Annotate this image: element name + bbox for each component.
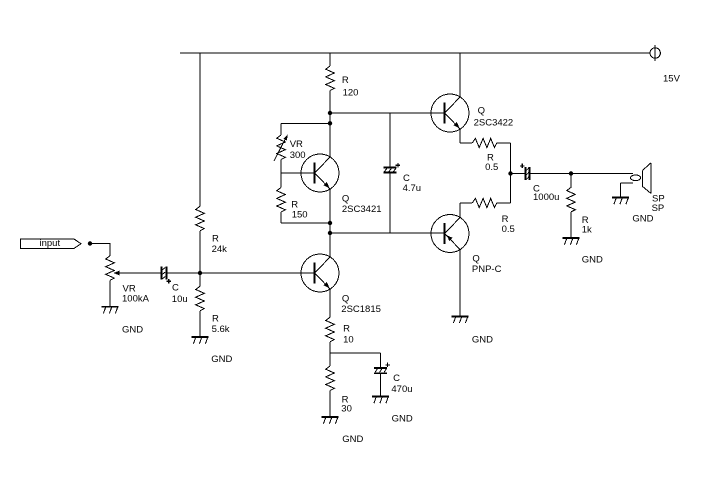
ground bbox=[451, 316, 468, 324]
potentiometer VR 100kA bbox=[106, 256, 120, 280]
resistor R 150 bbox=[277, 188, 286, 213]
svg-text:VR: VR bbox=[290, 139, 303, 150]
capacitor C 4.7u bbox=[383, 163, 400, 173]
node input label bbox=[21, 238, 82, 249]
label R 24k bbox=[212, 234, 228, 255]
label R 150 bbox=[291, 199, 307, 220]
label VR 100kA bbox=[122, 283, 150, 304]
speaker SP bbox=[631, 163, 652, 194]
svg-text:30: 30 bbox=[341, 404, 352, 415]
wire bbox=[460, 129, 473, 144]
label R 10 bbox=[343, 323, 354, 345]
svg-text:100kA: 100kA bbox=[122, 293, 150, 304]
trimmer VR 300 bbox=[274, 134, 288, 161]
label GND bbox=[342, 434, 363, 445]
svg-text:1000u: 1000u bbox=[533, 192, 559, 203]
ground bbox=[562, 237, 579, 245]
wire bbox=[330, 91, 331, 158]
wire bbox=[497, 143, 511, 174]
wire bbox=[531, 173, 571, 174]
wire bbox=[330, 342, 331, 366]
wire bbox=[497, 174, 511, 204]
wire bbox=[460, 203, 473, 218]
resistor R 30 bbox=[326, 366, 335, 391]
resistor R 5.6k bbox=[196, 286, 205, 311]
node input dot bbox=[88, 241, 92, 245]
svg-text:0.5: 0.5 bbox=[502, 224, 515, 235]
power terminal 15V bbox=[650, 45, 660, 61]
ground bbox=[191, 336, 208, 344]
label R 0.5 upper bbox=[485, 153, 498, 173]
svg-text:GND: GND bbox=[582, 254, 603, 265]
wire bbox=[330, 353, 381, 354]
transistor Q 2SC3422 bbox=[431, 94, 469, 132]
wire bbox=[200, 273, 201, 286]
resistor R 120 bbox=[326, 66, 335, 91]
node F dot bbox=[508, 171, 512, 175]
wire bbox=[281, 160, 282, 174]
transistor Q PNP-C bbox=[431, 215, 469, 253]
svg-text:10u: 10u bbox=[172, 294, 188, 305]
label GND bbox=[632, 214, 653, 225]
wire bbox=[330, 189, 331, 257]
wire bbox=[281, 212, 282, 223]
node C dot bbox=[328, 121, 332, 125]
wire bbox=[330, 391, 331, 417]
resistor R 0.5 upper bbox=[472, 138, 497, 147]
svg-text:GND: GND bbox=[472, 334, 493, 345]
label R 5.6k bbox=[212, 313, 230, 335]
capacitor C 10u bbox=[160, 266, 171, 283]
label C 4.7u bbox=[403, 173, 422, 194]
capacitor C 1000u bbox=[520, 164, 531, 181]
wire bbox=[281, 173, 314, 174]
label R 0.5 lower bbox=[502, 214, 515, 235]
label C 1000u bbox=[533, 184, 559, 204]
wire bbox=[281, 123, 330, 124]
label GND bbox=[582, 254, 603, 265]
wire bbox=[390, 173, 391, 233]
svg-text:0.5: 0.5 bbox=[485, 162, 498, 173]
wire bbox=[330, 53, 331, 66]
label R 30 bbox=[341, 395, 352, 415]
svg-text:R: R bbox=[342, 75, 349, 86]
transistor Q 2SC1815 bbox=[301, 254, 339, 292]
node A dot bbox=[198, 271, 202, 275]
wire bbox=[390, 113, 391, 167]
svg-text:GND: GND bbox=[392, 414, 413, 425]
wire bbox=[571, 212, 572, 237]
wire bbox=[281, 123, 282, 135]
svg-text:GND: GND bbox=[632, 214, 653, 225]
wire bbox=[380, 353, 381, 367]
wire bbox=[281, 223, 330, 224]
label Q 2SC1815 bbox=[341, 294, 381, 315]
svg-text:C: C bbox=[393, 373, 400, 384]
svg-text:SP: SP bbox=[652, 203, 665, 214]
wire bbox=[380, 374, 381, 395]
resistor R 24k bbox=[196, 206, 205, 231]
wire bbox=[200, 273, 314, 274]
label 15V bbox=[663, 74, 681, 85]
svg-text:2SC3421: 2SC3421 bbox=[342, 204, 382, 215]
node D dot bbox=[328, 221, 332, 225]
wire bbox=[200, 53, 201, 206]
svg-text:5.6k: 5.6k bbox=[212, 324, 230, 335]
label C 470u bbox=[391, 373, 412, 395]
wire bbox=[180, 53, 650, 54]
wire bbox=[110, 280, 111, 306]
wire bbox=[460, 250, 461, 316]
svg-text:1k: 1k bbox=[582, 225, 592, 236]
svg-text:120: 120 bbox=[343, 88, 359, 99]
svg-text:Q: Q bbox=[342, 194, 349, 205]
svg-text:15V: 15V bbox=[663, 74, 681, 85]
label VR 300 bbox=[290, 139, 306, 161]
label R 1k bbox=[582, 215, 592, 236]
svg-text:10: 10 bbox=[343, 335, 354, 346]
wire bbox=[330, 289, 331, 317]
wire bbox=[330, 233, 444, 234]
wire bbox=[330, 113, 444, 114]
ground bbox=[372, 396, 389, 404]
wire bbox=[119, 273, 161, 274]
wire bbox=[460, 53, 461, 98]
svg-text:Q: Q bbox=[478, 105, 485, 116]
label C 10u bbox=[172, 282, 188, 305]
label GND bbox=[122, 324, 143, 335]
node B dot bbox=[328, 111, 332, 115]
wire bbox=[167, 273, 200, 274]
resistor R 1k bbox=[567, 187, 576, 212]
node G dot bbox=[569, 171, 573, 175]
resistor R 0.5 lower bbox=[472, 198, 497, 207]
svg-text:2SC1815: 2SC1815 bbox=[341, 304, 381, 315]
node E dot bbox=[328, 231, 332, 235]
wire bbox=[90, 243, 111, 256]
svg-text:470u: 470u bbox=[391, 384, 412, 395]
wire bbox=[620, 183, 633, 197]
svg-text:GND: GND bbox=[211, 354, 232, 365]
label R 120 bbox=[342, 75, 359, 99]
svg-text:2SC3422: 2SC3422 bbox=[474, 118, 514, 129]
svg-text:150: 150 bbox=[292, 210, 308, 221]
label Q 2SC3422 bbox=[474, 105, 514, 128]
label GND bbox=[472, 334, 493, 345]
resistor R 10 bbox=[326, 317, 335, 342]
svg-text:Q: Q bbox=[472, 253, 479, 264]
svg-text:GND: GND bbox=[342, 434, 363, 445]
svg-text:PNP-C: PNP-C bbox=[472, 264, 502, 275]
wire bbox=[281, 173, 282, 188]
label Q 2SC3421 bbox=[342, 194, 382, 215]
ground bbox=[321, 416, 338, 424]
svg-text:C: C bbox=[172, 282, 179, 293]
wire bbox=[200, 311, 201, 336]
svg-text:24k: 24k bbox=[212, 244, 228, 255]
wire bbox=[571, 174, 572, 188]
wire bbox=[200, 231, 201, 273]
svg-text:R: R bbox=[212, 313, 219, 324]
label GND bbox=[211, 354, 232, 365]
capacitor C 470u bbox=[374, 363, 390, 375]
ground bbox=[101, 306, 118, 314]
wire bbox=[571, 173, 633, 174]
label GND bbox=[392, 414, 413, 425]
svg-text:4.7u: 4.7u bbox=[403, 183, 422, 194]
wire bbox=[511, 173, 525, 174]
svg-text:GND: GND bbox=[122, 324, 143, 335]
ground bbox=[612, 197, 629, 205]
label SP bbox=[652, 194, 665, 214]
label Q PNP-C bbox=[472, 253, 502, 275]
svg-text:300: 300 bbox=[290, 150, 306, 161]
svg-text:R: R bbox=[343, 323, 350, 334]
svg-text:input: input bbox=[40, 238, 61, 249]
transistor Q 2SC3421 bbox=[301, 154, 339, 192]
